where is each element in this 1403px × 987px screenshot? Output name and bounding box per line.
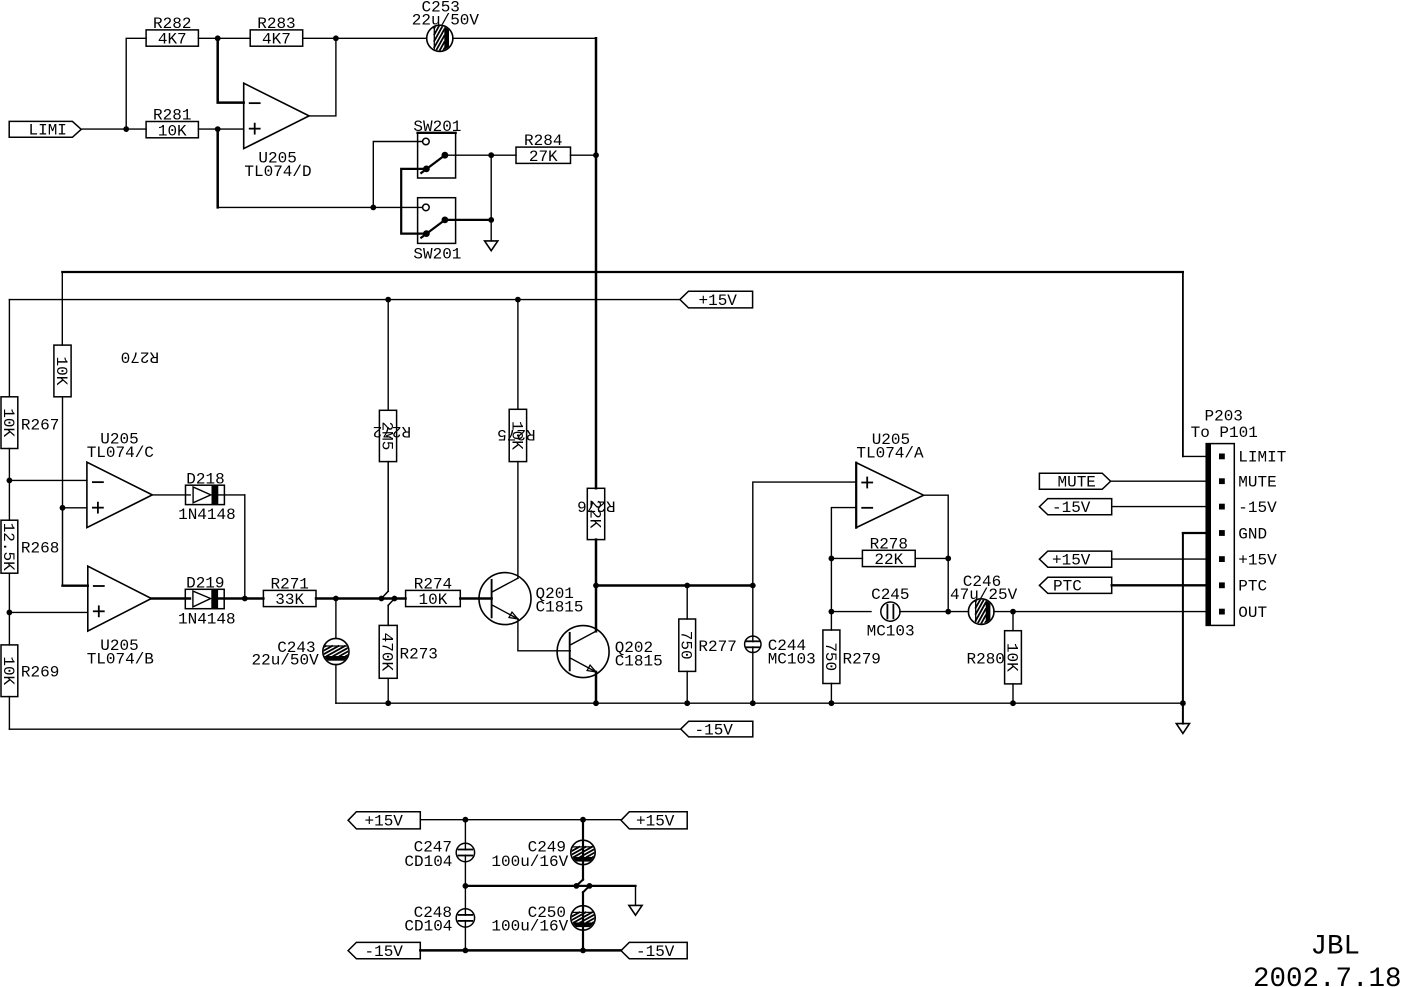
wire Q201 emitter to Q202 base bbox=[518, 619, 570, 651]
svg-text:+15V: +15V bbox=[1052, 551, 1091, 569]
svg-text:R281: R281 bbox=[153, 107, 191, 125]
svg-text:SW201: SW201 bbox=[413, 118, 461, 136]
svg-text:R270: R270 bbox=[121, 347, 159, 365]
power flag -15V bottom right bbox=[621, 942, 687, 961]
junction mid rail/C247 C248 bbox=[463, 883, 469, 889]
junction feedback/C245 bbox=[829, 609, 835, 615]
wire D219 to R271 bbox=[218, 597, 263, 599]
resistor R280 bbox=[967, 612, 1022, 704]
resistor R278 bbox=[831, 535, 948, 569]
junction -15V/C248 bbox=[463, 948, 469, 954]
svg-text:+15V: +15V bbox=[1238, 551, 1277, 569]
junction R273 tap bbox=[392, 596, 398, 602]
svg-text:22K: 22K bbox=[874, 551, 903, 569]
wire Q202 collector bbox=[595, 586, 598, 632]
svg-text:100u/16V: 100u/16V bbox=[491, 853, 568, 871]
svg-text:33K: 33K bbox=[275, 591, 304, 609]
junction R267/R268 divider tap bbox=[6, 478, 12, 484]
resistor R274 bbox=[406, 575, 461, 609]
wire tap to inverting input U205/C bbox=[9, 479, 87, 481]
wire SW201 lower pole to ground branch bbox=[445, 155, 491, 241]
svg-text:LIMIT: LIMIT bbox=[1238, 449, 1286, 467]
svg-text:100u/16V: 100u/16V bbox=[491, 918, 568, 936]
wire +15V to connector bbox=[1112, 558, 1207, 560]
net label PTC flag bbox=[1039, 577, 1111, 595]
svg-text:R273: R273 bbox=[400, 646, 438, 664]
wire R283 to C253 bbox=[303, 37, 427, 39]
junction ground/R279 bbox=[829, 700, 835, 706]
net label MUTE flag bbox=[1039, 473, 1110, 491]
wire C244 node up to non-inverting input U205/A bbox=[753, 482, 856, 585]
junction ground/C244 bbox=[750, 700, 756, 706]
svg-text:OUT: OUT bbox=[1238, 604, 1267, 622]
junction +15V/C249 bbox=[580, 817, 586, 823]
power flag +15V bottom right bbox=[621, 812, 687, 831]
svg-text:12.5K: 12.5K bbox=[0, 523, 17, 571]
wire R268 to R269 bbox=[8, 573, 10, 645]
svg-text:22u/50V: 22u/50V bbox=[252, 651, 320, 669]
resistor R272 bbox=[373, 300, 411, 599]
capacitor C249 100u/16V bbox=[491, 820, 611, 886]
diode D218 1N4148 bbox=[178, 470, 236, 524]
svg-text:P203: P203 bbox=[1205, 407, 1243, 425]
capacitor C243 22u/50V bbox=[252, 599, 365, 704]
capacitor C248 CD104 bbox=[404, 886, 474, 951]
wire R271 to C243 node bbox=[316, 597, 336, 599]
resistor R269 bbox=[0, 645, 59, 697]
wire junction up to R282 bbox=[126, 38, 146, 129]
transistor Q201 C1815 bbox=[479, 573, 584, 625]
svg-text:MUTE: MUTE bbox=[1238, 474, 1276, 492]
svg-text:10K: 10K bbox=[419, 591, 448, 609]
wire mid ground rail bbox=[465, 886, 635, 906]
resistor R267 bbox=[0, 397, 59, 449]
diode D219 1N4148 bbox=[178, 574, 236, 628]
wire R282 to R283 bbox=[198, 37, 250, 39]
svg-text:C1815: C1815 bbox=[615, 652, 663, 670]
wire branch down to inverting input U205/B bbox=[63, 508, 88, 586]
junction ground/GND pin bbox=[1180, 700, 1186, 706]
svg-text:PTC: PTC bbox=[1053, 578, 1082, 596]
svg-text:R284: R284 bbox=[524, 132, 562, 150]
resistor R271 bbox=[263, 575, 316, 609]
wire SW201 upper pole to R284 bbox=[445, 154, 516, 156]
svg-text:C1815: C1815 bbox=[536, 598, 584, 616]
wire tap to non-inverting input U205/B bbox=[9, 611, 87, 613]
svg-text:-15V: -15V bbox=[1052, 499, 1091, 517]
wire R269 down to -15V rail bbox=[8, 697, 10, 730]
wire inverting input U205/A to feedback node bbox=[831, 508, 856, 630]
svg-text:R280: R280 bbox=[967, 651, 1005, 669]
capacitor C253 22u/50V bbox=[412, 0, 480, 66]
op-amp U205 TL074/D bbox=[244, 83, 312, 181]
wire -15V to connector bbox=[1112, 506, 1207, 508]
op-amp U205 TL074/B bbox=[87, 566, 154, 668]
junction ground/R277 bbox=[684, 700, 690, 706]
resistor R282 bbox=[146, 15, 198, 49]
wire junction down to op-amp U205/D inverting input bbox=[218, 38, 244, 102]
wire R284 to limit node bbox=[571, 154, 597, 156]
junction ground/Q202 bbox=[593, 700, 599, 706]
wire limit rail down to LIMIT pin bbox=[1183, 272, 1206, 456]
wire R270 to non-inverting input U205/C bbox=[63, 397, 87, 508]
svg-text:D219: D219 bbox=[186, 574, 224, 592]
svg-text:TL074/C: TL074/C bbox=[87, 444, 154, 462]
resistor R277 bbox=[677, 586, 737, 704]
svg-text:R276: R276 bbox=[577, 496, 615, 514]
svg-text:TL074/A: TL074/A bbox=[856, 445, 924, 463]
junction Q202 collector node bbox=[593, 583, 599, 589]
op-amp U205 TL074/A bbox=[856, 431, 924, 527]
ground symbol at SW201 bbox=[485, 241, 498, 251]
title JBL bbox=[1253, 932, 1402, 987]
svg-text:R277: R277 bbox=[698, 638, 736, 656]
wire R267 to R268 bbox=[8, 449, 10, 521]
net label LIMI input flag bbox=[9, 121, 81, 139]
wire U205/C output to D218 bbox=[152, 494, 190, 496]
wire U205/B output to D219 bbox=[151, 597, 190, 599]
svg-text:2002.7.18: 2002.7.18 bbox=[1253, 964, 1402, 987]
svg-text:470K: 470K bbox=[378, 633, 396, 672]
junction ground/R273 bbox=[385, 700, 391, 706]
svg-text:47u/25V: 47u/25V bbox=[950, 586, 1018, 604]
svg-text:750: 750 bbox=[677, 631, 695, 660]
svg-text:CD104: CD104 bbox=[404, 918, 452, 936]
resistor R279 bbox=[821, 630, 881, 703]
junction switch input branch bbox=[370, 205, 376, 211]
junction R283/output bbox=[333, 35, 339, 41]
junction R271/C243 bbox=[333, 596, 339, 602]
wire junction down to SW201 lower input bbox=[218, 129, 423, 207]
svg-text:10K: 10K bbox=[158, 122, 187, 140]
wire LIMI to R281 bbox=[82, 128, 146, 130]
svg-text:1N4148: 1N4148 bbox=[178, 611, 236, 629]
svg-text:CD104: CD104 bbox=[404, 853, 452, 871]
wire GND pin to ground bbox=[1183, 533, 1206, 724]
junction -15V/C250 bbox=[580, 948, 586, 954]
wire PTC to connector bbox=[1112, 584, 1207, 586]
svg-text:+15V: +15V bbox=[699, 292, 738, 310]
svg-text:R271: R271 bbox=[270, 575, 308, 593]
wire Q202 emitter to ground rail bbox=[595, 672, 598, 703]
power flag -15V bbox=[681, 721, 753, 739]
capacitor C247 CD104 bbox=[404, 820, 474, 886]
wire -15V rail bbox=[9, 728, 680, 730]
svg-text:+15V: +15V bbox=[636, 813, 675, 831]
junction C246/R280 bbox=[1010, 609, 1016, 615]
transistor Q202 C1815 bbox=[557, 626, 663, 678]
power flag +15V to connector bbox=[1039, 551, 1111, 569]
wire -15V bottom rail bbox=[420, 949, 621, 952]
wire D218 to summing node bbox=[218, 495, 245, 599]
svg-text:R282: R282 bbox=[153, 15, 191, 33]
svg-text:TL074/B: TL074/B bbox=[87, 650, 154, 668]
svg-text:R267: R267 bbox=[21, 417, 59, 435]
svg-text:-15V: -15V bbox=[1238, 499, 1277, 517]
svg-text:10K: 10K bbox=[1002, 643, 1020, 672]
svg-text:R283: R283 bbox=[257, 15, 295, 33]
svg-text:750: 750 bbox=[821, 642, 839, 671]
svg-text:10K: 10K bbox=[0, 408, 17, 437]
svg-text:R279: R279 bbox=[843, 651, 881, 669]
svg-text:R272: R272 bbox=[373, 422, 411, 440]
svg-text:-15V: -15V bbox=[695, 721, 734, 739]
junction lower pole bbox=[488, 217, 494, 223]
wire MUTE to connector bbox=[1111, 480, 1207, 482]
capacitor C246 47u/25V bbox=[948, 573, 1017, 640]
svg-text:LIMI: LIMI bbox=[29, 122, 67, 140]
svg-text:PTC: PTC bbox=[1238, 578, 1267, 596]
switch SW201 lower bbox=[413, 198, 461, 264]
junction output/C245 C246 bbox=[945, 609, 951, 615]
ground symbol bottom section bbox=[629, 905, 642, 915]
junction D218/D219 summing node bbox=[242, 596, 248, 602]
svg-text:C245: C245 bbox=[871, 586, 909, 604]
svg-text:27K: 27K bbox=[529, 148, 558, 166]
switch SW201 upper bbox=[413, 118, 461, 178]
svg-text:MC103: MC103 bbox=[867, 622, 915, 640]
wire OUT line to connector bbox=[1013, 611, 1206, 613]
wire op-amp U205/D output up to feedback node bbox=[309, 38, 336, 116]
svg-text:-15V: -15V bbox=[636, 943, 675, 961]
junction R284/limit vertical bbox=[593, 152, 599, 158]
wire branch up to SW201 upper input bbox=[373, 142, 423, 208]
svg-text:10K: 10K bbox=[0, 656, 17, 685]
resistor R283 bbox=[250, 15, 303, 49]
wire C243 node to R274 bbox=[336, 597, 406, 599]
svg-text:R275: R275 bbox=[497, 425, 535, 443]
svg-text:GND: GND bbox=[1238, 525, 1267, 543]
wire limit vertical rail bbox=[595, 38, 598, 488]
svg-text:JBL: JBL bbox=[1311, 932, 1361, 963]
resistor R270 bbox=[52, 345, 159, 397]
svg-text:R274: R274 bbox=[414, 575, 452, 593]
wire limit horizontal rail bbox=[62, 272, 1183, 345]
wire collector node rail to U205/A input bbox=[596, 584, 753, 587]
junction mid rail/C250 bbox=[587, 883, 593, 889]
junction mid rail/C249 bbox=[574, 883, 580, 889]
junction R282/R283 bbox=[215, 35, 221, 41]
junction feedback/R278 bbox=[829, 556, 835, 562]
junction +15V/R272 bbox=[385, 297, 391, 303]
svg-text:+15V: +15V bbox=[365, 813, 404, 831]
svg-text:To P101: To P101 bbox=[1191, 424, 1258, 442]
capacitor C245 MC103 bbox=[831, 586, 948, 641]
junction output/R278 bbox=[945, 556, 951, 562]
svg-text:R269: R269 bbox=[21, 663, 59, 681]
svg-text:-15V: -15V bbox=[365, 943, 404, 961]
power flag -15V bottom left bbox=[348, 942, 420, 961]
junction at switch/ground branch bbox=[488, 152, 494, 158]
svg-text:TL074/D: TL074/D bbox=[244, 163, 311, 181]
junction R270 branch bbox=[60, 505, 66, 511]
connector P203 To P101 bbox=[1191, 407, 1287, 625]
svg-text:22u/50V: 22u/50V bbox=[412, 12, 480, 30]
wire R274 to Q201 base bbox=[460, 597, 491, 600]
svg-text:MC103: MC103 bbox=[768, 651, 816, 669]
wire SW201 upper common loop bbox=[401, 169, 426, 234]
power flag +15V bottom left bbox=[348, 812, 420, 831]
ground symbol at connector bbox=[1176, 724, 1189, 734]
svg-text:1N4148: 1N4148 bbox=[178, 506, 236, 524]
wire +15V bottom rail bbox=[420, 819, 621, 821]
svg-text:D218: D218 bbox=[186, 470, 224, 488]
resistor R268 bbox=[0, 520, 59, 573]
resistor R284 bbox=[516, 132, 571, 166]
svg-text:10K: 10K bbox=[52, 357, 70, 386]
power flag +15V bbox=[680, 291, 753, 310]
svg-text:R268: R268 bbox=[21, 539, 59, 557]
power flag -15V to connector bbox=[1039, 499, 1111, 517]
svg-text:R278: R278 bbox=[870, 535, 908, 553]
resistor R276 bbox=[577, 488, 615, 585]
junction R281/switch branch bbox=[215, 126, 221, 132]
capacitor C244 MC103 bbox=[745, 586, 816, 704]
wire +15V rail bbox=[9, 300, 680, 397]
junction at LIMI branch bbox=[123, 126, 129, 132]
resistor R275 bbox=[497, 300, 535, 579]
svg-text:MUTE: MUTE bbox=[1058, 474, 1096, 492]
junction rail/R277 bbox=[684, 583, 690, 589]
wire C253 to limit vertical bbox=[453, 37, 596, 39]
resistor R273 bbox=[378, 599, 438, 704]
op-amp U205 TL074/C bbox=[87, 430, 154, 527]
resistor R281 bbox=[146, 107, 198, 141]
capacitor C250 100u/16V bbox=[491, 886, 611, 951]
wire ground rail bbox=[336, 702, 1183, 704]
junction +15V/C247 bbox=[463, 817, 469, 823]
svg-text:SW201: SW201 bbox=[413, 245, 461, 263]
junction R272 tap bbox=[379, 596, 385, 602]
wire R281 to op-amp U205/D non-inverting input bbox=[198, 128, 243, 130]
junction ground/R280 bbox=[1010, 700, 1016, 706]
svg-text:4K7: 4K7 bbox=[158, 31, 187, 49]
junction rail/C244 bbox=[750, 583, 756, 589]
junction +15V/R275 bbox=[515, 297, 521, 303]
svg-text:4K7: 4K7 bbox=[262, 31, 291, 49]
junction R268/R269 divider tap bbox=[6, 610, 12, 616]
wire U205/A output feedback bbox=[924, 495, 949, 611]
